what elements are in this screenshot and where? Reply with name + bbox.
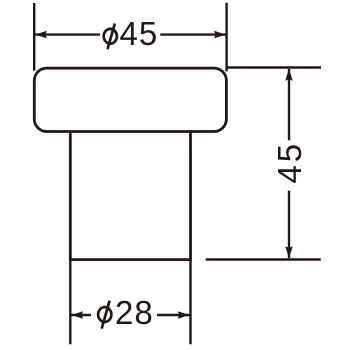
- knob cap outline: [34, 68, 226, 131]
- text mask height-45: [275, 140, 303, 190]
- dimension line height-45: [288, 69, 290, 258]
- arrowhead phi28 right: [178, 311, 190, 319]
- svg-text:28: 28: [115, 294, 154, 331]
- extension line phi28 left (stem left edge extended): [69, 260, 71, 345]
- extension line phi45 left: [33, 3, 35, 71]
- phi symbol of phi45: [104, 24, 117, 50]
- arrowhead height-45 up: [285, 69, 293, 81]
- phi symbol of phi28: [98, 301, 111, 329]
- dimension line phi28: [71, 314, 189, 316]
- svg-text:45: 45: [271, 141, 308, 184]
- extension line phi28 right (stem right edge extended): [189, 260, 191, 345]
- dimension line phi45: [35, 33, 226, 35]
- arrowhead phi45 right: [214, 31, 226, 39]
- arrowhead phi45 left: [35, 31, 47, 39]
- arrowhead phi28 left: [71, 311, 83, 319]
- extension line phi45 right: [225, 3, 227, 72]
- extension line height-45 top: [227, 66, 321, 68]
- extension line height-45 bottom: [206, 258, 321, 260]
- arrowhead height-45 down: [285, 246, 293, 258]
- text mask phi45: [100, 15, 160, 53]
- text mask phi28: [91, 295, 157, 336]
- svg-text:45: 45: [120, 15, 159, 52]
- knob stem outline: [70, 132, 190, 260]
